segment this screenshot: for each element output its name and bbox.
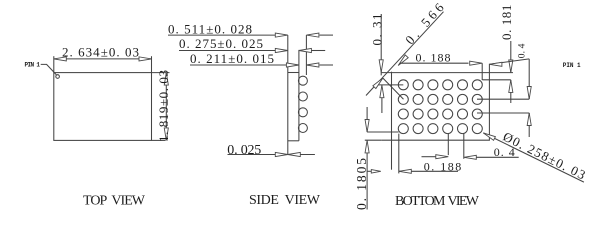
col5 extension bottom <box>463 134 465 159</box>
seating arrows bowtie <box>275 152 288 156</box>
extension line left <box>53 56 55 72</box>
0.188 bottom leader <box>399 170 458 172</box>
row4 leader left <box>367 131 399 133</box>
solder ball side 4 <box>298 124 307 133</box>
long vertical reference line <box>391 72 393 170</box>
svg-text:0. 188: 0. 188 <box>416 51 451 65</box>
svg-text:0. 181: 0. 181 <box>499 5 514 40</box>
svg-text:0. 1805: 0. 1805 <box>354 158 369 210</box>
svg-text:0. 4: 0. 4 <box>518 43 528 58</box>
0.181 dimension line <box>510 41 512 72</box>
side view bottom step <box>288 140 299 142</box>
side view right edge <box>298 50 300 141</box>
svg-text:0. 566: 0. 566 <box>402 0 447 47</box>
row1 extension right <box>482 79 511 81</box>
bottom pitch line left <box>422 156 437 158</box>
solder ball side 1 <box>298 76 307 85</box>
dimension line 2.634 horizontal <box>54 58 152 60</box>
side view left edge <box>287 35 289 154</box>
0.4 lower arrow <box>528 113 530 137</box>
side view internal line <box>288 72 299 74</box>
0.181 lower arrow <box>510 80 512 103</box>
arrowhead down of 1.819 <box>164 128 168 141</box>
arrowhead right of 2.634 <box>139 57 152 61</box>
dimension line 1.819 vertical <box>165 73 167 141</box>
right line 0.511 <box>320 34 334 36</box>
extension top edge right for 1.819 <box>152 72 170 74</box>
bottom edge extension left <box>365 139 381 141</box>
pin 1 marker circle <box>56 75 60 79</box>
svg-text:SIDE VIEW: SIDE VIEW <box>249 193 321 208</box>
arrowhead left of 2.634 <box>54 57 67 61</box>
arrowhead up of 1.819 <box>164 73 168 86</box>
0.1805 dimension line vertical lower <box>366 140 368 209</box>
row3 extension right <box>477 112 529 114</box>
right line 0.211 <box>320 64 334 66</box>
svg-text:PIN 1: PIN 1 <box>563 62 581 69</box>
0.566 arrow at corner <box>373 77 385 89</box>
svg-text:0. 31: 0. 31 <box>369 14 384 46</box>
ball grid <box>398 80 482 134</box>
0.31 lower arrow <box>381 85 383 113</box>
extension line right <box>151 56 153 72</box>
solder ball side 2 <box>298 92 307 101</box>
svg-text:TOP VIEW: TOP VIEW <box>83 194 146 209</box>
svg-text:2. 634±0. 03: 2. 634±0. 03 <box>62 45 139 60</box>
0.4 slant leader <box>489 59 529 64</box>
0.566 leader line <box>366 12 444 96</box>
seating plane line <box>228 154 315 156</box>
ball(6,1) tangent extension top <box>481 63 483 80</box>
callout line 0.511 <box>168 34 275 36</box>
0.1805 dimension line vertical upper <box>366 107 368 132</box>
right line 0.275 <box>312 50 326 52</box>
svg-text:0. 511±0. 028: 0. 511±0. 028 <box>168 22 252 37</box>
corner to ball diagonal <box>383 78 404 99</box>
0.4 vertical line <box>528 59 530 99</box>
ball extent extension line <box>305 35 307 75</box>
svg-text:PIN 1: PIN 1 <box>25 61 41 68</box>
bottom ref vertical x398.8 <box>398 134 400 174</box>
right edge upward extension <box>488 64 490 73</box>
bottom view body outline (left side open) <box>381 73 489 141</box>
pin 1 leader wire <box>41 64 57 74</box>
top edge extension right <box>489 72 513 74</box>
svg-text:1. 819±0. 03: 1. 819±0. 03 <box>156 70 171 142</box>
svg-text:0. 188: 0. 188 <box>424 159 462 173</box>
svg-text:0. 275±0. 025: 0. 275±0. 025 <box>179 36 263 51</box>
row1 leader left <box>376 84 403 86</box>
0.188 top dimension line <box>400 62 469 64</box>
svg-text:0. 025: 0. 025 <box>227 143 261 158</box>
solder ball side 3 <box>298 108 307 117</box>
small tick leader at 171 <box>367 170 372 172</box>
col4 extension bottom <box>447 134 449 156</box>
phi 0.258 leader line <box>483 133 584 182</box>
callout line 0.275 <box>179 50 275 52</box>
top view body outline <box>54 73 152 141</box>
bottom pitch arrow right / 0.4 leader <box>464 155 477 159</box>
0.566 upper arrow <box>397 55 409 67</box>
extension bottom edge right for 1.819 <box>152 139 166 141</box>
svg-text:0. 211±0. 015: 0. 211±0. 015 <box>190 51 274 66</box>
0.31 dimension line vertical <box>380 14 382 72</box>
row2 extension right <box>477 98 529 100</box>
callout line 0.211 <box>190 64 288 66</box>
svg-text:BOTTOM VIEW: BOTTOM VIEW <box>395 194 480 209</box>
